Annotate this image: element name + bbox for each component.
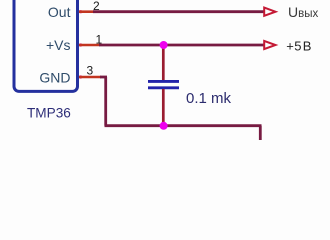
svg-text:3: 3: [87, 64, 94, 78]
svg-text:+5В: +5В: [286, 39, 311, 54]
svg-text:0.1 mk: 0.1 mk: [186, 90, 232, 107]
arrow Uvyh output: [264, 8, 275, 16]
pin stub pin 1: [79, 44, 100, 47]
pin terminal dot pin 3: [79, 75, 82, 78]
pin stub pin 3: [79, 76, 101, 79]
pin stub pin 2: [79, 10, 94, 13]
svg-text:TMP36: TMP36: [27, 106, 71, 121]
wire GND corner segment: [100, 76, 107, 79]
pin terminal dot pin 1: [79, 43, 82, 46]
svg-text:+Vs: +Vs: [46, 37, 71, 53]
wire capacitor bottom to ground bus: [162, 89, 165, 126]
IC U1 TMP36 body: [14, 0, 78, 91]
wire ground bus bottom: [105, 124, 262, 127]
wire Out to Uvyh arrow: [93, 10, 264, 13]
arrow +5V supply: [264, 41, 275, 49]
wire +Vs to +5V arrow: [99, 44, 264, 47]
capacitor C1 bottom plate: [148, 86, 179, 89]
pin terminal dot pin 2: [79, 10, 82, 13]
wire down off bottom edge: [259, 126, 262, 140]
svg-text:Out: Out: [48, 4, 71, 20]
svg-text:GND: GND: [39, 69, 70, 85]
junction node on +Vs wire: [160, 41, 168, 49]
wire GND down: [104, 77, 107, 126]
junction node on ground bus: [160, 122, 168, 130]
wire junction to capacitor top: [162, 45, 165, 80]
capacitor C1 top plate: [148, 80, 179, 83]
